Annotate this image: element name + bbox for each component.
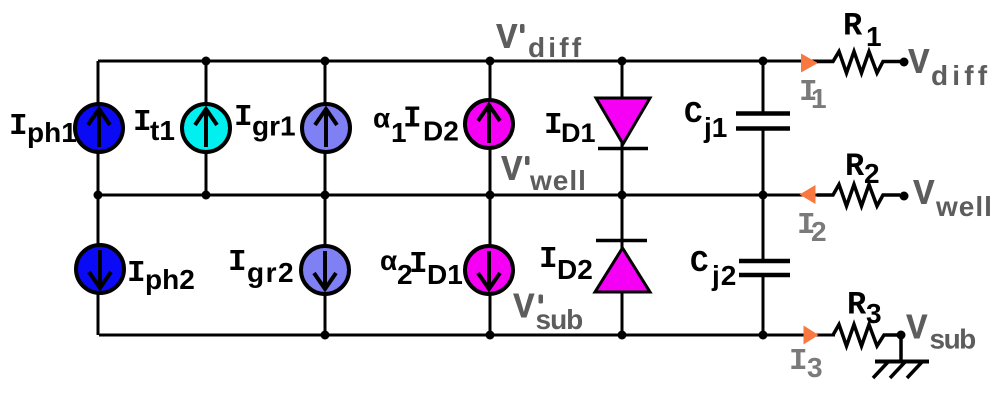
svg-text:V: V [501,150,523,191]
wire vertical branch alpha sources [489,61,492,335]
svg-text:t1: t1 [150,115,175,146]
label It1 [133,105,175,146]
label Cj2 [690,246,737,291]
label ID1 [544,108,596,148]
svg-text:1: 1 [811,83,827,114]
svg-text:I: I [789,344,808,379]
svg-text:C: C [684,97,703,132]
label Vwell [913,174,993,222]
wire left edge vertical [97,61,100,335]
label alpha2 ID1 [380,245,463,290]
label I3 [789,344,823,383]
label V'well node [501,150,587,196]
label Vsub [906,309,975,355]
current source Igr1 [302,104,350,152]
svg-text:I: I [133,105,152,140]
label alpha1 ID2 [373,102,459,149]
wire vertical branch diodes [621,61,624,335]
node dot Vsub [897,331,906,340]
svg-text:I: I [544,108,563,143]
svg-text:V: V [906,309,928,350]
svg-text:I: I [403,102,422,137]
current arrow I3 [804,326,819,345]
svg-text:j2: j2 [711,260,737,291]
svg-text:α: α [373,103,390,134]
node junction dots middle rail [94,191,768,200]
current arrow I2 [800,185,816,204]
svg-text:sub: sub [536,304,583,335]
current source Igr2 [301,246,349,294]
svg-text:R: R [843,8,863,45]
current source It1 [182,104,230,152]
svg-text:1: 1 [866,21,882,52]
svg-text:D1: D1 [427,259,463,290]
svg-text:2: 2 [811,216,827,247]
svg-text:diff: diff [528,32,584,63]
resistor R3 [833,325,898,347]
svg-text:diff: diff [931,60,991,91]
label ID2 [539,242,593,285]
resistor R1 [817,52,901,74]
ground [873,335,929,378]
label Iph1 [9,109,77,148]
label R2 [845,148,880,189]
node dot Vwell [900,192,909,201]
label V'diff node [496,18,584,63]
label Igr1 [234,100,296,142]
svg-text:well: well [529,165,587,196]
svg-text:j1: j1 [703,112,727,143]
svg-text:α: α [380,245,397,276]
current source Iph1 [75,104,123,152]
svg-text:gr2: gr2 [247,257,295,288]
svg-text:2: 2 [864,158,880,189]
svg-text:sub: sub [930,324,976,355]
svg-text:3: 3 [807,352,823,383]
svg-text:ph2: ph2 [145,264,195,295]
svg-text:I: I [228,245,247,280]
wire vertical branch Igr [324,61,327,335]
diode ID1 [596,98,650,149]
svg-text:ph1: ph1 [27,117,77,148]
wire capacitor branch segment 2 [762,130,765,260]
label R3 [847,287,882,330]
svg-text:V: V [513,288,535,329]
resistor R2 [817,185,900,207]
current arrow I1 [801,54,818,73]
label Igr2 [228,245,295,288]
current source alpha1 ID2 [465,100,513,148]
svg-text:well: well [935,191,993,222]
label V'sub node [513,288,582,336]
svg-text:D2: D2 [557,254,593,285]
svg-text:C: C [690,246,709,281]
current source Iph2 [76,245,124,293]
diode ID2 [595,241,650,293]
svg-text:I: I [9,109,28,144]
svg-text:I: I [127,256,146,291]
svg-text:I: I [234,100,253,135]
label Iph2 [127,256,195,295]
label Vdiff [908,43,991,91]
svg-text:V: V [913,174,935,215]
label I1 [799,75,827,114]
wire capacitor branch segment 1 [762,61,765,112]
svg-text:gr1: gr1 [252,111,296,142]
node dot Vdiff [900,58,909,67]
node junction dots bottom rail [321,331,768,340]
svg-text:3: 3 [866,298,882,329]
wire bottom rail V'sub [99,334,835,337]
svg-text:V: V [496,18,518,59]
label R1 [843,8,882,53]
current source alpha2 ID1 [465,246,513,294]
node junction dots top rail [202,57,768,66]
svg-text:D2: D2 [423,116,459,147]
svg-text:V: V [908,43,930,84]
svg-text:I: I [539,242,558,277]
wire vertical branch It1 [205,61,208,195]
wire middle rail V'well [98,194,833,197]
svg-text:I: I [409,247,428,282]
svg-text:R: R [847,287,867,324]
capacitor Cj2 [739,261,790,275]
label I2 [797,208,827,247]
wire top rail V'diff [98,60,833,63]
svg-text:R: R [845,148,865,185]
label Cj1 [684,97,727,143]
svg-text:D1: D1 [561,118,596,148]
wire capacitor branch segment 3 [762,276,765,335]
capacitor Cj1 [736,114,790,129]
